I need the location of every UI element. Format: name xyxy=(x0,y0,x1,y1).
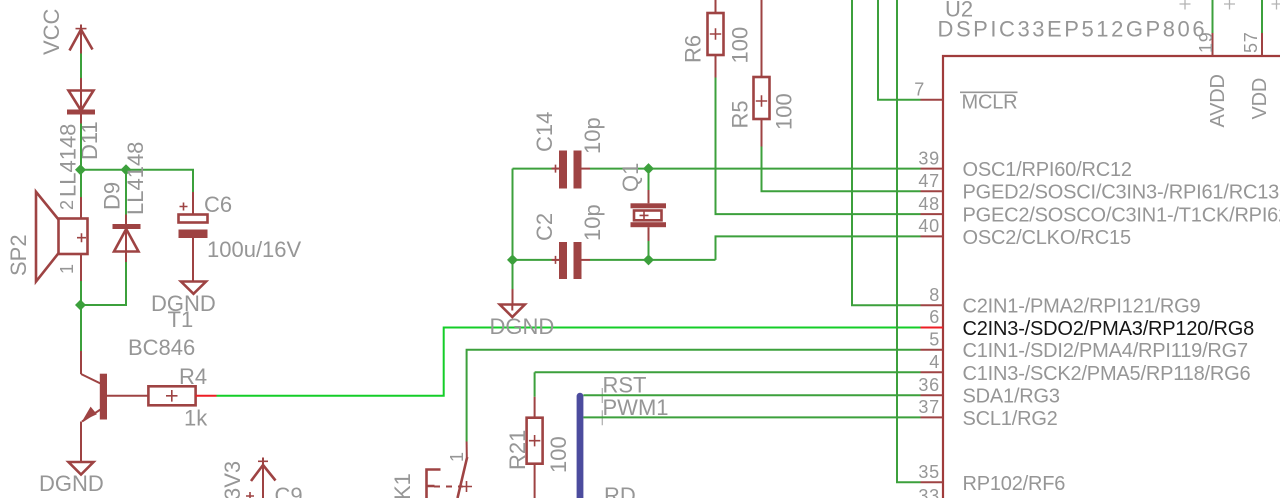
pin 8 stub xyxy=(921,304,944,306)
svg-text:40: 40 xyxy=(918,216,940,236)
highlighted pin stub of R4 xyxy=(196,395,217,397)
wire SP2 pin2 from node A xyxy=(80,170,82,197)
transistor T1 xyxy=(81,351,148,462)
svg-text:C1IN1-/SDI2/PMA4/RPI119/RG7: C1IN1-/SDI2/PMA4/RPI119/RG7 xyxy=(963,340,1249,362)
svg-text:35: 35 xyxy=(918,462,940,482)
wire C14 to node D / pin 39 row xyxy=(590,168,921,170)
pin 57 stub xyxy=(1261,33,1263,56)
node F junction xyxy=(643,254,654,265)
pin name MCLR with overline xyxy=(960,92,1018,114)
capacitor C9 plus mark xyxy=(246,492,254,498)
resistor R21 xyxy=(527,372,543,498)
wire VCC to D11 xyxy=(80,54,82,79)
pin 7 stub MCLR xyxy=(921,99,944,101)
pin 19 stub xyxy=(1212,33,1214,56)
wire C2 to node F xyxy=(590,259,716,261)
pin 4 stub xyxy=(921,371,944,373)
wire VDD pin 57 xyxy=(1261,0,1263,33)
svg-text:SP2: SP2 xyxy=(6,234,31,276)
pin 35 stub xyxy=(921,481,944,483)
pin 40 stub xyxy=(921,235,944,237)
svg-text:VCC: VCC xyxy=(39,8,64,55)
wire C14 left down to node E xyxy=(512,169,514,260)
wire switch K1 to IC pin 5 xyxy=(467,350,921,442)
node D junction xyxy=(643,163,654,174)
pin 5 stub xyxy=(921,349,944,351)
svg-text:5: 5 xyxy=(929,329,940,349)
svg-text:D9: D9 xyxy=(100,182,125,210)
svg-text:C6: C6 xyxy=(204,192,232,217)
speaker SP2 xyxy=(36,192,88,282)
node E junction xyxy=(507,254,518,265)
svg-text:LL4148: LL4148 xyxy=(123,142,148,215)
op-amp U1 ... actually IC U2 border xyxy=(943,56,1280,498)
ground DGND (under C6) xyxy=(181,282,206,294)
bus (blue) xyxy=(577,396,584,498)
svg-text:36: 36 xyxy=(918,375,940,395)
diode D9 xyxy=(113,215,141,263)
svg-text:DSPIC33EP512GP806: DSPIC33EP512GP806 xyxy=(938,17,1208,42)
wire R5 to IC pin 47 xyxy=(762,147,921,192)
svg-text:LL4148: LL4148 xyxy=(56,124,81,197)
crystal Q1 xyxy=(631,169,667,260)
svg-text:RP102/RF6: RP102/RF6 xyxy=(963,473,1066,495)
svg-text:BC846: BC846 xyxy=(128,335,195,360)
wire RST to IC pin 36 xyxy=(583,394,920,396)
highlighted wire R4 to IC pin 6 xyxy=(217,328,921,396)
plus mark 3 (top) xyxy=(1272,0,1280,10)
svg-text:SDA1/RG3: SDA1/RG3 xyxy=(963,386,1060,408)
wire PWM1 to IC pin 37 xyxy=(583,416,920,418)
svg-text:C1IN3-/SCK2/PMA5/RP118/RG6: C1IN3-/SCK2/PMA5/RP118/RG6 xyxy=(963,363,1251,385)
wire SP2 pin1 to node C xyxy=(80,281,82,305)
svg-text:DGND: DGND xyxy=(39,471,104,496)
node B junction xyxy=(121,164,132,175)
node A junction xyxy=(75,164,86,175)
svg-text:100: 100 xyxy=(772,93,797,130)
svg-text:19: 19 xyxy=(1196,31,1216,53)
wire node C to T1 collector xyxy=(80,305,82,351)
svg-text:1: 1 xyxy=(447,451,467,462)
svg-text:2: 2 xyxy=(57,199,77,210)
svg-text:MCLR: MCLR xyxy=(962,92,1018,114)
svg-text:4: 4 xyxy=(929,352,940,372)
svg-text:R5: R5 xyxy=(728,100,753,128)
svg-text:33: 33 xyxy=(918,486,940,498)
pin 37 stub xyxy=(921,416,944,418)
resistor R6 xyxy=(708,0,724,78)
svg-text:AVDD: AVDD xyxy=(1207,74,1229,127)
svg-text:3V3: 3V3 xyxy=(220,461,245,498)
capacitor C6 xyxy=(179,192,208,281)
wire AVDD pin 19 xyxy=(1212,0,1214,33)
wire D9 to node C xyxy=(81,262,127,305)
svg-text:6: 6 xyxy=(929,307,940,327)
svg-text:RD: RD xyxy=(604,483,636,498)
svg-text:C2IN3-/SDO2/PMA3/RP120/RG8: C2IN3-/SDO2/PMA3/RP120/RG8 xyxy=(963,318,1255,340)
svg-text:C2IN1-/PMA2/RPI121/RG9: C2IN1-/PMA2/RPI121/RG9 xyxy=(963,296,1201,318)
svg-text:10p: 10p xyxy=(580,117,605,154)
pin 6 stub (highlighted) xyxy=(921,327,944,329)
svg-text:K1: K1 xyxy=(390,473,415,498)
svg-text:C14: C14 xyxy=(532,112,557,152)
svg-text:100: 100 xyxy=(546,436,571,473)
svg-text:37: 37 xyxy=(918,397,940,417)
pin 48 stub xyxy=(921,213,944,215)
wire node A to node B to C6 corner xyxy=(81,170,194,192)
svg-text:C9: C9 xyxy=(275,483,303,498)
svg-text:VDD: VDD xyxy=(1249,78,1271,120)
pin 36 stub xyxy=(921,394,944,396)
wire D11 to node A xyxy=(80,124,82,170)
svg-text:SCL1/RG2: SCL1/RG2 xyxy=(963,408,1058,430)
plus mark 2 (top) xyxy=(1224,0,1235,10)
pin 39 stub xyxy=(921,168,944,170)
switch K1 xyxy=(427,442,473,498)
ground DGND (middle) xyxy=(500,260,525,317)
wire vertical to IC pin 7 xyxy=(878,0,921,100)
svg-text:C2: C2 xyxy=(532,213,557,241)
wire vertical to IC pin 35 xyxy=(897,0,921,482)
svg-text:T1: T1 xyxy=(168,307,194,332)
capacitor C14 xyxy=(513,151,591,189)
wire node F to IC pin 40 xyxy=(716,236,921,260)
svg-text:PGEC2/SOSCO/C3IN1-/T1CK/RPI62/: PGEC2/SOSCO/C3IN1-/T1CK/RPI62/RC14 xyxy=(963,205,1280,227)
svg-text:R6: R6 xyxy=(681,35,706,63)
svg-text:Q1: Q1 xyxy=(618,163,643,192)
svg-text:1: 1 xyxy=(57,263,77,274)
svg-text:57: 57 xyxy=(1241,31,1261,53)
svg-text:10p: 10p xyxy=(580,204,605,241)
svg-text:PGED2/SOSCI/C3IN3-/RPI61/RC13: PGED2/SOSCI/C3IN3-/RPI61/RC13 xyxy=(963,182,1280,204)
svg-text:8: 8 xyxy=(929,285,940,305)
svg-text:39: 39 xyxy=(918,148,940,168)
ground DGND (under T1) xyxy=(69,462,94,475)
svg-text:7: 7 xyxy=(914,80,925,100)
wire R6 to IC pin 48 xyxy=(716,78,921,215)
svg-text:OSC2/CLKO/RC15: OSC2/CLKO/RC15 xyxy=(963,227,1131,249)
plus mark 1 (top) xyxy=(1180,0,1191,10)
capacitor C2 xyxy=(513,242,591,279)
svg-text:100u/16V: 100u/16V xyxy=(207,237,302,262)
diode D11 xyxy=(67,78,95,124)
svg-text:RST: RST xyxy=(603,373,647,398)
resistor R4 xyxy=(148,386,195,405)
svg-text:PWM1: PWM1 xyxy=(603,395,669,420)
wire R21 to IC pin 4 xyxy=(535,371,921,373)
svg-text:OSC1/RPI60/RC12: OSC1/RPI60/RC12 xyxy=(963,159,1132,181)
svg-text:1k: 1k xyxy=(184,406,208,431)
wire node B to D9 xyxy=(125,170,127,215)
pin 47 stub xyxy=(921,190,944,192)
node C junction xyxy=(75,300,86,311)
svg-text:47: 47 xyxy=(918,171,940,191)
resistor R5 xyxy=(754,0,770,147)
svg-text:R4: R4 xyxy=(179,364,207,389)
supply symbol VCC xyxy=(70,25,93,54)
svg-text:R21: R21 xyxy=(505,430,530,470)
supply symbol 3V3 xyxy=(251,458,276,498)
svg-text:DGND: DGND xyxy=(490,314,555,339)
wire vertical to IC pin 8 xyxy=(852,0,921,305)
svg-text:100: 100 xyxy=(728,27,753,64)
svg-text:48: 48 xyxy=(918,194,940,214)
label origin cross (RST) xyxy=(597,388,607,403)
label origin cross (PWM1) xyxy=(597,410,607,425)
